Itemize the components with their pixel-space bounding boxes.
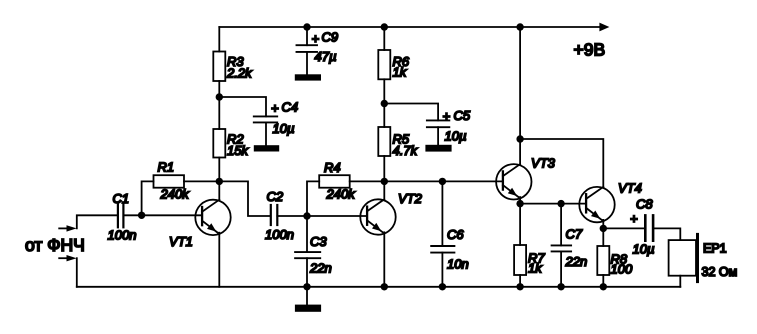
node rail-C9: [303, 23, 310, 30]
wire emitter to C8: [603, 227, 644, 229]
label C8: [630, 197, 654, 257]
svg-text:VT2: VT2: [398, 191, 423, 206]
svg-text:C4: C4: [282, 100, 299, 115]
svg-text:+: +: [443, 109, 451, 124]
svg-text:EP1: EP1: [703, 242, 727, 256]
label R5 value: [393, 132, 419, 159]
node R6-R5-C5: [381, 100, 388, 107]
wire node to C4: [219, 97, 266, 116]
label C2: [265, 189, 294, 242]
svg-text:10µ: 10µ: [633, 242, 655, 257]
svg-text:VT4: VT4: [618, 181, 642, 196]
node R3-R2-C4: [216, 93, 223, 100]
wire VT3 emitter: [519, 197, 521, 204]
resistor R7: [514, 245, 526, 275]
wire C7 to rail: [560, 251, 562, 286]
label R6 value: [393, 54, 410, 80]
wire R4 to node: [350, 180, 385, 182]
capacitor C8: [645, 215, 653, 240]
node C7 top: [557, 200, 564, 207]
node C2-C3-R4: [303, 212, 310, 219]
wire C5 to ground: [437, 127, 439, 145]
wire C3 top: [306, 216, 308, 252]
node C6 top: [439, 178, 446, 185]
wire C3 to rail: [306, 258, 308, 287]
ground C4: [254, 145, 279, 151]
label C9: [312, 30, 339, 65]
transistor VT3: [496, 164, 531, 199]
node rail-C7: [557, 283, 564, 290]
wire node to C2: [219, 181, 270, 216]
wire C6 top: [441, 181, 443, 246]
node rail-VT3: [516, 23, 523, 30]
wire input top to C1: [77, 215, 118, 228]
node rail-R8: [600, 283, 607, 290]
input terminal upper arrow: [59, 225, 76, 231]
node rail-R6: [381, 23, 388, 30]
svg-text:от ФНЧ: от ФНЧ: [25, 235, 85, 255]
svg-text:10n: 10n: [447, 257, 469, 272]
label C3: [309, 234, 332, 276]
node C1-R1: [138, 212, 145, 219]
wire VT2 emitter to rail: [383, 232, 385, 286]
wire speaker to rail: [679, 276, 681, 287]
node VT3 emitter: [516, 200, 523, 207]
svg-text:R1: R1: [158, 160, 175, 175]
capacitor C2: [271, 205, 278, 225]
wire R7 top: [519, 204, 521, 245]
wire node to C5: [384, 104, 438, 121]
svg-text:240k: 240k: [326, 187, 357, 202]
svg-text:C9: C9: [322, 30, 339, 45]
capacitor C1: [118, 203, 124, 227]
ground C9: [295, 74, 321, 80]
wire rail to R6: [383, 27, 385, 50]
speaker EP1: [669, 234, 698, 281]
resistor R4: [319, 175, 350, 188]
wire node to R1: [142, 181, 154, 215]
node R1-R2-VT1: [216, 178, 223, 185]
svg-text:C8: C8: [636, 197, 653, 212]
svg-text:2.2k: 2.2k: [226, 66, 253, 81]
svg-text:47µ: 47µ: [315, 49, 337, 64]
svg-text:10µ: 10µ: [445, 129, 467, 144]
label C5: [443, 108, 471, 144]
wire bottom rail: [77, 286, 681, 288]
wire VT2 collector: [383, 181, 385, 199]
svg-text:15k: 15k: [227, 143, 249, 158]
wire ground stub: [306, 287, 308, 305]
wire VT1 collector: [218, 181, 220, 199]
wire C6 to rail: [441, 253, 443, 287]
ground main: [295, 305, 321, 312]
label R7 value: [528, 251, 545, 276]
resistor R8: [597, 246, 609, 275]
resistor R1: [154, 175, 185, 188]
svg-text:22n: 22n: [565, 254, 588, 269]
transistor VT4: [579, 187, 614, 222]
wire C9 to ground: [306, 52, 308, 74]
svg-text:22n: 22n: [309, 261, 332, 276]
svg-text:+: +: [271, 101, 279, 116]
svg-text:1k: 1k: [528, 261, 543, 276]
wire R8 to rail: [602, 275, 604, 287]
capacitor C6: [431, 246, 454, 253]
svg-text:VT1: VT1: [169, 234, 193, 249]
svg-text:+: +: [630, 211, 638, 226]
wire R5 to node: [383, 156, 385, 181]
svg-text:C6: C6: [447, 227, 464, 242]
label R3 value: [226, 54, 253, 81]
svg-text:10µ: 10µ: [273, 121, 295, 136]
label C6: [447, 227, 469, 272]
ground C5: [425, 145, 451, 152]
svg-text:C2: C2: [267, 189, 284, 204]
wire C7 top: [560, 204, 562, 246]
label C4: [271, 100, 298, 137]
resistor R2: [213, 129, 225, 158]
transistor VT1: [195, 200, 230, 235]
label R1 value: [158, 160, 191, 202]
wire R8 top: [602, 228, 604, 246]
input terminal lower arrow: [59, 255, 76, 261]
label EP1: [702, 242, 738, 280]
capacitor C9: [297, 45, 318, 52]
wire C2 to VT2 base: [277, 215, 367, 217]
wire C1 to VT1 base: [123, 214, 202, 216]
wire top supply rail: [219, 26, 599, 28]
wire C9 stub: [306, 27, 308, 45]
resistor R6: [378, 50, 390, 79]
capacitor C5: [427, 120, 449, 127]
wire rail to VT3 collector: [519, 27, 521, 164]
wire R6 to R5: [383, 79, 385, 127]
label C7: [565, 227, 588, 270]
wire C8 to speaker: [653, 228, 680, 240]
wire R1 to node: [184, 180, 219, 182]
wire input bottom to rail: [76, 258, 78, 287]
resistor R3: [213, 52, 225, 82]
node rail-R7: [516, 283, 523, 290]
wire R7 to rail: [519, 275, 521, 287]
wire rail to R3: [218, 27, 220, 52]
label R8 value: [611, 252, 633, 277]
svg-text:C1: C1: [113, 191, 130, 206]
svg-text:C7: C7: [566, 227, 583, 242]
svg-text:VT3: VT3: [531, 156, 556, 171]
wire R2 to node: [218, 158, 220, 182]
svg-text:R4: R4: [324, 160, 341, 175]
label R4 value: [324, 160, 356, 202]
wire C4 to ground: [265, 122, 267, 145]
wire node up to R4: [307, 181, 319, 216]
node VT4 emitter: [600, 225, 607, 232]
label R2 value: [227, 132, 249, 159]
svg-text:C5: C5: [454, 108, 471, 123]
svg-text:4.7k: 4.7k: [393, 143, 419, 158]
svg-text:100n: 100n: [108, 228, 137, 243]
svg-text:240k: 240k: [160, 187, 191, 202]
svg-text:C3: C3: [310, 234, 327, 249]
capacitor C7: [552, 245, 572, 251]
node rail-VT2: [381, 283, 388, 290]
capacitor C3: [295, 252, 320, 258]
wire VT2 collector to VT3 base: [384, 180, 503, 182]
svg-text:100n: 100n: [265, 227, 294, 242]
svg-text:1k: 1k: [393, 65, 408, 80]
svg-text:32 Ом: 32 Ом: [702, 265, 738, 279]
wire R3 to R2: [218, 81, 220, 129]
node VT3 collector: [516, 135, 523, 142]
svg-text:100: 100: [611, 262, 633, 277]
svg-text:+: +: [312, 31, 320, 46]
wire collector node to VT4 collector: [520, 139, 603, 187]
node R4-R5-VT2: [381, 178, 388, 185]
svg-text:+9В: +9В: [574, 40, 606, 60]
transistor VT2: [360, 199, 395, 234]
wire VT3 emitter to VT4 base: [520, 203, 586, 205]
label C1: [108, 191, 137, 243]
node rail-C6: [439, 283, 446, 290]
node rail-C3-ground: [303, 283, 310, 290]
resistor R5: [378, 127, 390, 156]
+9V supply arrow: [599, 23, 609, 32]
wire VT4 emitter: [602, 220, 604, 229]
capacitor C4: [254, 116, 277, 122]
wire VT1 emitter to rail: [218, 233, 220, 287]
